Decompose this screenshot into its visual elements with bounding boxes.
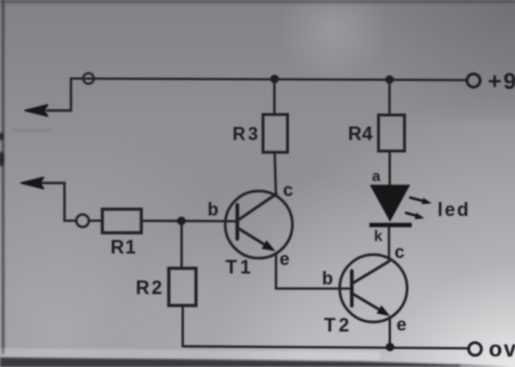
svg-text:led: led (438, 200, 471, 221)
svg-text:ov: ov (489, 337, 515, 362)
resistor R1 (102, 209, 141, 233)
input arrow 2 (points left) (21, 177, 44, 188)
wire: R4 down to LED anode (389, 151, 391, 185)
svg-text:b: b (322, 269, 333, 289)
svg-text:+9: +9 (488, 68, 515, 94)
svg-text:R3: R3 (233, 124, 261, 144)
wire: circle to R1 (89, 219, 102, 221)
svg-text:T1: T1 (226, 258, 254, 279)
svg-text:R1: R1 (111, 238, 137, 259)
svg-text:b: b (208, 200, 219, 220)
wire: rail down to R3 (273, 79, 275, 115)
junction dot: emitter / 0V rail (386, 343, 395, 352)
LED light arrow 1 (410, 198, 432, 205)
junction dot: base node (177, 217, 186, 226)
svg-text:c: c (395, 242, 405, 262)
connector circle on top rail (83, 73, 94, 84)
wire: left drop from rail to input 1 (47, 79, 71, 111)
terminal +9V (467, 74, 480, 87)
resistor R2 (169, 268, 196, 305)
terminal 0V (469, 343, 482, 356)
input arrow 1 (points left) (25, 105, 48, 116)
wire: 0V bottom rail (183, 346, 467, 348)
T1 collector stroke (239, 194, 277, 220)
wire: T1 emitter down and across to T2 base (276, 254, 352, 289)
junction dot: rail / R3 (270, 75, 279, 84)
svg-text:R2: R2 (136, 278, 164, 299)
junction dot: rail / R4 (385, 75, 394, 84)
T1 base bar (236, 205, 240, 239)
svg-text:T2: T2 (324, 316, 352, 337)
transistor T2 body (340, 255, 407, 322)
svg-text:e: e (397, 315, 407, 335)
T2 emitter stroke with arrow (353, 294, 380, 310)
svg-text:k: k (374, 228, 383, 245)
resistor R4 (379, 115, 405, 151)
LED light arrow 2 (406, 213, 424, 220)
wire: rail down to R4 (388, 80, 390, 116)
T1 emitter stroke with arrow (239, 229, 267, 246)
T2 base bar (350, 271, 354, 306)
T2 collector stroke (353, 261, 389, 283)
wire: T2 emitter down to 0V rail (389, 318, 391, 347)
wire: LED cathode down to T2 collector (388, 227, 390, 261)
wire: input 2 to connector circle (42, 183, 76, 221)
svg-text:e: e (280, 249, 290, 269)
LED cathode bar (369, 223, 411, 227)
bottom photo edge band (0, 348, 515, 367)
svg-text:a: a (372, 168, 381, 185)
wire: R3 to T1 collector (275, 152, 276, 194)
resistor R3 (263, 115, 288, 153)
wire: base node down to R2 (180, 221, 182, 268)
svg-text:R4: R4 (348, 124, 373, 145)
wire: +9V top rail (71, 79, 467, 81)
svg-text:c: c (283, 180, 293, 200)
transistor T1 body (225, 191, 292, 258)
LED triangle (370, 185, 410, 222)
wire: R1 to T1 base (141, 220, 236, 223)
connector circle at R1 input (76, 214, 89, 227)
wire: R2 down to 0V rail (181, 306, 183, 347)
